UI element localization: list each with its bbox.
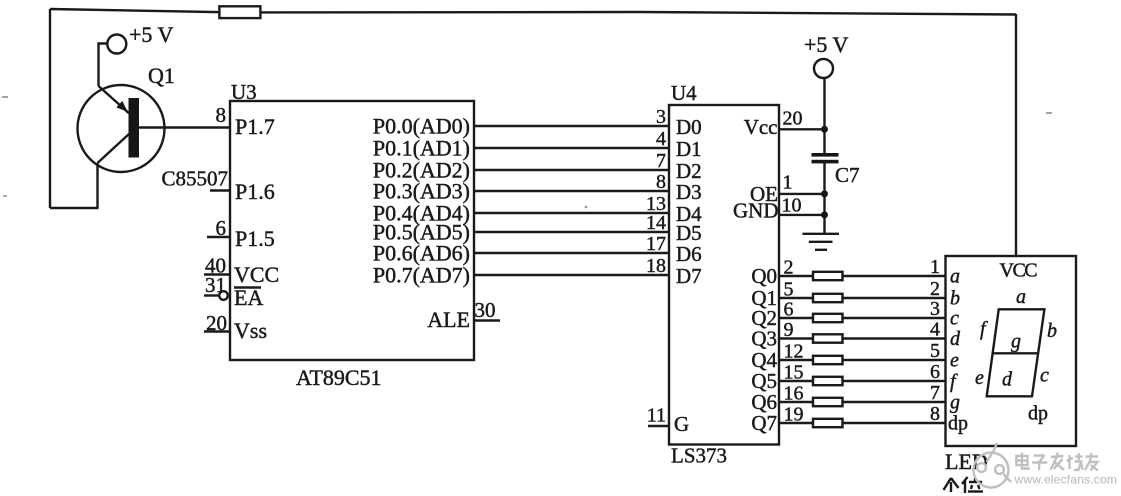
- svg-text:D0: D0: [676, 115, 702, 139]
- svg-text:D7: D7: [676, 264, 702, 288]
- svg-text:Vcc: Vcc: [744, 115, 778, 139]
- svg-text:8: 8: [930, 403, 940, 425]
- svg-text:P1.5: P1.5: [235, 226, 275, 251]
- svg-text:14: 14: [646, 212, 666, 234]
- svg-text:g: g: [950, 392, 960, 414]
- svg-text:30: 30: [475, 298, 496, 322]
- svg-text:VCC: VCC: [1000, 260, 1038, 282]
- svg-text:1: 1: [930, 256, 940, 278]
- svg-text:7: 7: [930, 382, 940, 404]
- svg-text:c: c: [1040, 365, 1049, 387]
- svg-text:d: d: [950, 328, 961, 350]
- svg-text:10: 10: [782, 195, 802, 217]
- svg-text:ALE: ALE: [427, 307, 470, 332]
- svg-text:b: b: [950, 288, 960, 310]
- svg-text:D1: D1: [676, 137, 702, 161]
- svg-text:8: 8: [216, 103, 227, 127]
- svg-text:6: 6: [930, 361, 940, 383]
- svg-text:P0.7(AD7): P0.7(AD7): [373, 263, 470, 288]
- svg-text:C85507: C85507: [161, 167, 228, 191]
- svg-text:D3: D3: [676, 180, 702, 204]
- svg-text:4: 4: [930, 319, 940, 341]
- svg-text:7: 7: [656, 150, 666, 172]
- svg-text:d: d: [1002, 369, 1013, 391]
- svg-text:1: 1: [783, 172, 793, 194]
- svg-text:20: 20: [783, 108, 803, 130]
- svg-text:LS373: LS373: [671, 444, 727, 468]
- svg-text:EA: EA: [234, 285, 263, 310]
- svg-text:8: 8: [656, 171, 666, 193]
- svg-text:Q7: Q7: [751, 411, 777, 435]
- svg-text:g: g: [1011, 331, 1021, 353]
- svg-text:3: 3: [656, 106, 666, 128]
- svg-text:dp: dp: [948, 413, 968, 435]
- svg-text:e: e: [950, 350, 959, 372]
- svg-text:+5 V: +5 V: [804, 32, 849, 57]
- svg-text:2: 2: [930, 278, 940, 300]
- svg-text:AT89C51: AT89C51: [296, 365, 382, 390]
- svg-text:dp: dp: [1028, 403, 1048, 425]
- svg-text:C7: C7: [835, 163, 860, 187]
- svg-text:e: e: [975, 367, 984, 389]
- svg-text:GND: GND: [733, 199, 779, 223]
- svg-text:b: b: [1047, 320, 1057, 342]
- svg-text:4: 4: [656, 128, 666, 150]
- svg-text:www.elecfans.com: www.elecfans.com: [1014, 473, 1118, 487]
- svg-text:Q1: Q1: [148, 63, 175, 88]
- svg-text:D6: D6: [676, 242, 702, 266]
- svg-text:VCC: VCC: [234, 262, 279, 287]
- svg-text:17: 17: [646, 233, 666, 255]
- svg-text:P1.7: P1.7: [235, 114, 275, 139]
- svg-text:Q0: Q0: [751, 264, 777, 288]
- svg-text:a: a: [1016, 286, 1026, 308]
- svg-text:11: 11: [647, 405, 666, 427]
- svg-text:P1.6: P1.6: [235, 179, 275, 204]
- svg-text:Vss: Vss: [234, 318, 267, 343]
- svg-text:Q3: Q3: [751, 327, 777, 351]
- svg-text:+5 V: +5 V: [129, 22, 174, 47]
- svg-text:U4: U4: [671, 81, 697, 105]
- svg-text:U3: U3: [231, 80, 257, 104]
- svg-text:3: 3: [930, 298, 940, 320]
- svg-text:c: c: [950, 308, 959, 330]
- svg-text:5: 5: [930, 340, 940, 362]
- svg-text:a: a: [950, 266, 960, 288]
- svg-text:G: G: [674, 412, 689, 436]
- svg-text:18: 18: [646, 255, 666, 277]
